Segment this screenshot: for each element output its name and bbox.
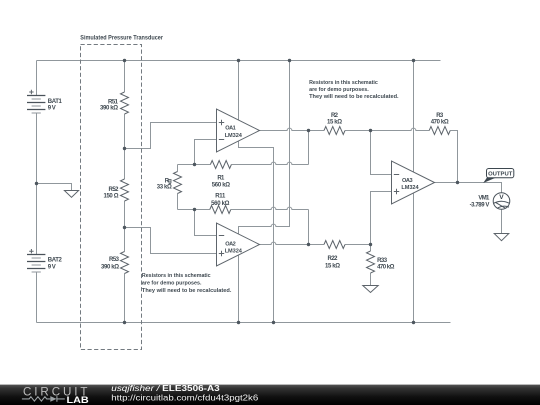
label BAT2 9V xyxy=(48,258,63,271)
svg-text:BAT2: BAT2 xyxy=(48,258,63,264)
label R3 470 kOhm xyxy=(431,113,449,125)
wire OA2 V- power pin to bottom rail xyxy=(238,255,240,322)
flag OUTPUT xyxy=(483,169,514,184)
resistor R51 390k zigzag xyxy=(121,92,129,114)
wire bottom rail xyxy=(37,322,451,324)
svg-text:Simulated Pressure Transducer: Simulated Pressure Transducer xyxy=(80,35,163,42)
op-amp OA2 LM324 xyxy=(217,223,260,266)
resistor R52 150 zigzag xyxy=(121,179,129,201)
svg-text:9 V: 9 V xyxy=(48,264,56,270)
svg-text:R33: R33 xyxy=(377,258,388,264)
op-amp OA1 LM324 xyxy=(217,109,260,152)
ground symbol below VM1 xyxy=(494,234,509,241)
wire R51 top lead xyxy=(124,61,126,93)
wire R1 row left segment xyxy=(178,164,211,166)
label R11 560 kOhm xyxy=(211,194,229,208)
wire Rg bottom lead xyxy=(177,194,179,210)
label R52 150 Ohm xyxy=(104,187,120,199)
ground symbol below R33 xyxy=(363,286,378,293)
svg-text:OA1: OA1 xyxy=(225,126,236,132)
svg-text:R2: R2 xyxy=(331,113,339,119)
svg-text:150 Ω: 150 Ω xyxy=(104,194,119,200)
label R51 390 kOhm xyxy=(100,99,119,111)
wire OA1 feedback vertical xyxy=(308,131,310,165)
svg-text:560 kΩ: 560 kΩ xyxy=(212,183,230,189)
svg-text:BAT1: BAT1 xyxy=(48,99,63,105)
label OA2 LM324 xyxy=(225,241,243,254)
svg-text:VM1: VM1 xyxy=(478,196,490,202)
note annotation lower: resistors for demo purposes xyxy=(142,273,232,294)
wire OA1 inverting input to R1 node xyxy=(195,140,217,165)
wire OA1 V+ power pin to top rail xyxy=(238,61,240,121)
svg-text:R53: R53 xyxy=(109,257,120,263)
svg-text:OA2: OA2 xyxy=(225,241,236,247)
wire R1 row right segment with hops xyxy=(231,162,308,164)
svg-text:LM324: LM324 xyxy=(401,185,419,191)
wire left column BAT1 to BAT2 xyxy=(36,113,38,255)
wire R11 row right segment with hops xyxy=(231,207,309,209)
svg-text:V: V xyxy=(499,194,504,201)
label Rg 33 kOhm xyxy=(157,178,172,190)
svg-text:are for demo purposes.: are for demo purposes. xyxy=(142,281,202,287)
wire R11 row left segment xyxy=(178,209,210,211)
label OA3 LM324 xyxy=(401,178,419,191)
label R33 470 kOhm xyxy=(377,258,394,270)
svg-text:33 kΩ: 33 kΩ xyxy=(157,184,172,190)
footer logo resistor-diode squiggle xyxy=(22,396,65,402)
battery BAT2 plates xyxy=(27,255,45,269)
label R22 15 kOhm xyxy=(325,256,340,270)
label OA1 LM324 xyxy=(225,126,243,139)
resistor Rg 33k zigzag xyxy=(174,172,182,194)
wire VM1 bottom lead to ground xyxy=(501,209,503,233)
enclosure Simulated Pressure Transducer dashed box xyxy=(81,45,142,350)
wire R53 bottom lead xyxy=(124,274,126,323)
wire left column BAT1 top xyxy=(36,61,38,96)
wire R52 to R53 node segment xyxy=(124,201,126,252)
svg-text:9 V: 9 V xyxy=(48,106,56,112)
svg-text:OA3: OA3 xyxy=(402,178,413,184)
wire R33 bottom lead to ground xyxy=(370,273,372,286)
node junction dots xyxy=(35,59,459,324)
wire OA2 feedback vertical xyxy=(308,210,310,245)
svg-text:15 kΩ: 15 kΩ xyxy=(325,263,340,269)
label R2 15 kOhm xyxy=(327,113,342,125)
svg-text:390 kΩ: 390 kΩ xyxy=(101,265,119,271)
battery BAT1 plates xyxy=(27,96,45,110)
label VM1 -3.789 V xyxy=(470,196,490,209)
wire R2/R3 node down to OA3 inverting input xyxy=(371,131,392,175)
ground symbol at battery midpoint xyxy=(64,191,78,198)
label R53 390 kOhm xyxy=(101,257,120,270)
svg-text:They will need to be recalcula: They will need to be recalculated. xyxy=(309,94,399,100)
wire R3 right end down to output node xyxy=(450,131,457,183)
svg-text:OUTPUT: OUTPUT xyxy=(488,171,513,177)
label R1 560 kOhm xyxy=(212,175,230,188)
svg-text:470 kΩ: 470 kΩ xyxy=(431,119,449,125)
svg-text:R1: R1 xyxy=(217,175,225,181)
svg-text:Resistors in this schematic: Resistors in this schematic xyxy=(309,80,378,86)
wire OA2 inverting input to R11 node xyxy=(195,210,217,236)
wire OA1 output row with hop xyxy=(260,128,325,130)
wire R2 to R3 row with hop over OA3 V+ xyxy=(345,128,429,130)
resistor R1 560k zigzag xyxy=(210,161,231,169)
battery BAT2 plus sign xyxy=(29,249,33,253)
op-amp OA3 LM324 xyxy=(392,161,435,204)
resistor R53 390k zigzag xyxy=(121,252,129,274)
svg-text:LM324: LM324 xyxy=(225,249,243,255)
resistor R33 470k zigzag xyxy=(367,251,375,273)
svg-text:R3: R3 xyxy=(436,113,444,119)
wire OA2 output row with hop xyxy=(260,242,325,244)
svg-text:They will need to be recalcula: They will need to be recalculated. xyxy=(142,288,232,294)
wire top +9V rail xyxy=(37,60,441,62)
resistor R3 470k zigzag xyxy=(429,127,450,135)
svg-text:15 kΩ: 15 kΩ xyxy=(327,119,342,125)
wire OA3 V- power pin to bottom rail xyxy=(413,194,415,323)
svg-text:LAB: LAB xyxy=(67,394,89,405)
svg-text:Resistors in this schematic: Resistors in this schematic xyxy=(142,273,211,279)
resistor R22 15k zigzag xyxy=(324,241,345,249)
wire OA3 output row to voltmeter xyxy=(435,183,502,193)
svg-text:LM324: LM324 xyxy=(225,133,243,139)
wire R51 to R52 node segment xyxy=(124,114,126,179)
wire R33 top lead xyxy=(370,245,372,252)
svg-text:Rg: Rg xyxy=(165,178,172,184)
wire R22 right lead to node xyxy=(345,244,371,246)
svg-text:470 kΩ: 470 kΩ xyxy=(377,265,394,271)
resistor R11 560k zigzag xyxy=(210,206,231,214)
voltmeter VM1 xyxy=(493,193,510,210)
wire ground tap from battery midpoint xyxy=(37,184,72,191)
svg-text:R11: R11 xyxy=(215,194,226,200)
battery BAT1 plus sign xyxy=(29,90,33,94)
svg-text:usqjfisher / ELE3506-A3: usqjfisher / ELE3506-A3 xyxy=(111,384,220,393)
svg-text:are for demo purposes.: are for demo purposes. xyxy=(309,87,369,93)
footer black bar xyxy=(0,385,540,405)
svg-text:http://circuitlab.com/cfdu4t3p: http://circuitlab.com/cfdu4t3pgt2k6 xyxy=(111,393,259,402)
svg-text:-3.789 V: -3.789 V xyxy=(470,203,490,209)
wire OA2 V+ power pin route to top rail with hop xyxy=(239,61,290,235)
wire left column BAT2 to bottom rail xyxy=(36,272,38,323)
wire node R51/R52 to OA1 noninverting input xyxy=(125,123,217,149)
svg-text:560 kΩ: 560 kΩ xyxy=(211,201,229,207)
wire R22/R33 node up to OA3 noninverting input xyxy=(371,192,392,245)
svg-text:R51: R51 xyxy=(108,99,119,105)
label BAT1 9V xyxy=(48,99,63,112)
svg-text:R22: R22 xyxy=(328,256,339,262)
svg-text:390 kΩ: 390 kΩ xyxy=(100,106,118,112)
wire Rg top lead xyxy=(177,165,179,172)
wire OA3 V+ power pin to top rail xyxy=(413,61,415,173)
resistor R2 15k zigzag xyxy=(324,127,345,135)
note annotation top: resistors for demo purposes xyxy=(309,80,399,100)
wire OA1 V- power pin route to bottom rail xyxy=(239,141,274,323)
svg-text:R52: R52 xyxy=(109,187,120,193)
wire node R52/R53 to OA2 noninverting input xyxy=(125,228,217,254)
